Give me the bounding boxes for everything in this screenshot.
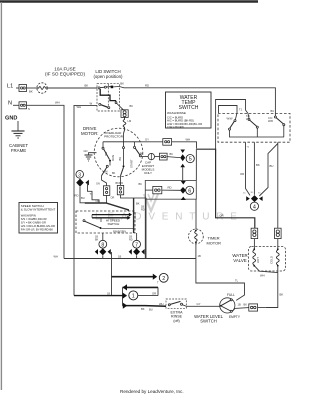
wire connector1 right stub	[138, 295, 158, 297]
motor left winding arm	[102, 142, 112, 176]
junction marks below connector 8	[95, 248, 111, 255]
fuse F1 (10A, dashed = if so equipped)	[37, 83, 47, 93]
wire thick to connector 2	[112, 276, 154, 278]
label GN/OR at left connector	[96, 183, 114, 200]
svg-text:SWITCH: SWITCH	[200, 319, 217, 324]
wire timer to rail and water level	[196, 244, 245, 301]
water level switch circle	[220, 298, 235, 313]
svg-text:1: 1	[132, 293, 135, 299]
label START (rotated)	[129, 159, 133, 168]
labels RD BU at staircase	[75, 194, 85, 201]
svg-text:W: W	[90, 102, 93, 106]
label BU on drop	[270, 164, 274, 168]
stub pin labels at connector 4	[243, 192, 262, 194]
temp contact 3 (C/C W/R)	[274, 116, 284, 137]
svg-text:OR: OR	[240, 172, 244, 176]
svg-text:R/WB/SPIN: R/WB/SPIN	[113, 230, 126, 233]
temp contact 1 (W/W)	[229, 114, 285, 138]
lid switch lower contacts	[99, 101, 124, 110]
label WATER VALVE	[232, 253, 247, 263]
connector 6 (circled)	[186, 186, 194, 194]
svg-text:BK: BK	[140, 151, 144, 155]
label WH at rail start	[54, 255, 58, 259]
water temp switch contacts dashed box	[218, 113, 290, 142]
svg-text:7: 7	[135, 242, 138, 248]
svg-text:(IF SO EQUIPPED): (IF SO EQUIPPED)	[45, 71, 86, 76]
label C/C W/R	[268, 116, 273, 123]
timer motor dashed circle	[189, 229, 204, 244]
drive motor M1 dashed circle	[94, 128, 143, 177]
label TL on water level feed	[235, 279, 239, 283]
node L1 label	[7, 84, 13, 90]
label 1B on rail	[118, 254, 121, 258]
svg-text:BK: BK	[170, 152, 174, 156]
label GN at ground stub	[84, 149, 88, 153]
speed switch legend text	[21, 204, 56, 231]
svg-text:1C: 1C	[243, 193, 246, 195]
svg-text:BU: BU	[104, 152, 108, 156]
label RUN (rotated)	[111, 155, 115, 161]
label FULL	[227, 293, 235, 297]
svg-text:BK: BK	[29, 90, 33, 94]
svg-text:Rendered by LeadVenture, Inc.: Rendered by LeadVenture, Inc.	[120, 389, 184, 394]
svg-text:BU: BU	[270, 164, 274, 168]
svg-text:BK: BK	[120, 82, 124, 86]
wire temp drop BK	[253, 142, 255, 195]
svg-text:2: 2	[162, 276, 165, 282]
svg-text:WASH/SPIN: WASH/SPIN	[21, 213, 36, 217]
svg-text:WH: WH	[186, 137, 191, 141]
wire thick BK drop to connector7	[133, 198, 135, 233]
wire drop to circuits 1 and 2	[111, 252, 113, 296]
svg-text:START: START	[129, 159, 133, 168]
label HI SPEED SWITCH	[106, 218, 121, 226]
connector 5 (circled)	[186, 155, 194, 163]
speed switch dashed box	[76, 211, 135, 233]
svg-text:3: 3	[78, 172, 81, 178]
svg-text:FULL: FULL	[227, 293, 235, 297]
wire connector7 to rail	[136, 255, 138, 258]
label OR above	[96, 199, 100, 203]
label BK before lid switch	[85, 84, 89, 88]
svg-text:1D: 1D	[250, 192, 253, 194]
valve connector (cold)	[275, 228, 282, 238]
junction marks at connector 6	[180, 181, 186, 200]
overload protector squiggle	[123, 117, 126, 133]
motor output connector left	[102, 176, 110, 203]
label CABINET FRAME	[9, 143, 28, 153]
water valve dashed box	[249, 247, 286, 272]
water temp switch legend text	[167, 95, 202, 129]
wire N lead	[13, 104, 19, 106]
wire extra rinse to water level	[186, 305, 219, 307]
svg-text:SWITCH: SWITCH	[108, 222, 120, 226]
wire diamond3 staircase right	[88, 183, 100, 203]
label BK at junction box left	[139, 182, 143, 186]
svg-text:HOT: HOT	[256, 257, 260, 263]
svg-text:ONLY: ONLY	[144, 171, 152, 175]
label N under connector	[28, 107, 30, 111]
footer text	[120, 389, 184, 394]
svg-text:5: 5	[189, 157, 192, 163]
wire lid switch to temp contacts (top run)	[119, 87, 275, 117]
svg-text:BK: BK	[85, 84, 89, 88]
label T/C W/L	[246, 114, 251, 121]
junction triangle at connector 1	[123, 293, 127, 299]
label EXTRA RINSE (off)	[171, 310, 184, 322]
label BK at cap branch	[140, 151, 144, 155]
timer motor coil	[195, 230, 198, 244]
label WH left of lid switch	[77, 105, 82, 109]
svg-text:BK: BK	[95, 239, 99, 242]
svg-text:1B: 1B	[238, 303, 241, 307]
connector 4 (circled)	[250, 202, 258, 210]
svg-text:GN: GN	[96, 183, 100, 186]
svg-text:1B: 1B	[198, 254, 201, 258]
svg-text:BK: BK	[280, 293, 284, 297]
svg-text:BU: BU	[81, 196, 85, 200]
svg-text:RUN: RUN	[111, 155, 115, 161]
label BK near connector	[130, 104, 134, 108]
svg-text:1B: 1B	[118, 254, 121, 258]
junction triangle left of upper branch	[123, 284, 127, 290]
wire nested link B	[219, 106, 238, 114]
wire connector6 to timer	[195, 199, 197, 229]
label T1 near contacts entry	[239, 108, 243, 112]
label LID SWITCH (open position)	[93, 69, 123, 79]
speed switch internal bus wires	[92, 215, 129, 218]
capacitor connector box	[155, 153, 181, 160]
svg-text:BK: BK	[244, 303, 248, 307]
valve coil HOT	[253, 248, 256, 266]
label T1 at staircase	[90, 192, 94, 196]
extra rinse switch dashed box	[166, 299, 186, 308]
connector box RD (to circle 6)	[145, 186, 180, 193]
wire fuse to lid switch	[47, 87, 97, 89]
lid switch S1 dashed box	[97, 84, 119, 111]
label 1B near connector 8	[95, 236, 99, 242]
svg-text:LM: LM	[128, 119, 132, 123]
motor centre arm	[121, 142, 125, 176]
connector on WH run	[163, 139, 172, 146]
svg-text:GY: GY	[145, 137, 149, 141]
node N label	[8, 101, 12, 107]
svg-text:N: N	[8, 101, 12, 107]
svg-text:5M: 5M	[104, 171, 107, 174]
wire connector to circle5 drop	[172, 142, 197, 149]
lid switch internal jumper	[100, 89, 116, 101]
wire connectors to valve coils	[254, 239, 277, 249]
junction marks below connector 7	[129, 248, 145, 255]
bus wire end arrows	[127, 213, 132, 220]
wire thick bottom to extra rinse	[123, 305, 167, 308]
labels BK BU on bottom wire	[141, 307, 153, 312]
label RD on top run	[145, 83, 149, 87]
label CAP EXPORT MODELS ONLY	[142, 160, 155, 175]
wire GND drop	[17, 121, 19, 131]
ground symbol at motor	[85, 155, 93, 161]
svg-text:WH: WH	[159, 302, 164, 306]
wire circle5 down to circle6	[182, 167, 184, 181]
connector 1 (circled)	[129, 291, 138, 300]
speed switch contacts	[83, 215, 133, 229]
wire temp drop BU	[259, 144, 278, 197]
svg-text:BK/RD: BK/RD	[116, 182, 124, 185]
svg-text:S/Y = BK-GN/BK-GR: S/Y = BK-GN/BK-GR	[21, 221, 46, 225]
wire neutral rail (bottom horizontal)	[64, 258, 196, 260]
label WH under valve	[260, 274, 265, 278]
svg-text:RD: RD	[168, 185, 172, 189]
motor output connector right	[117, 176, 146, 198]
svg-text:4: 4	[253, 204, 256, 210]
label DRIVE MOTOR	[81, 126, 98, 136]
svg-text:VALVE: VALVE	[233, 258, 247, 263]
wire corner into extra rinse	[157, 287, 159, 295]
label TIMER MOTOR	[207, 236, 222, 246]
svg-text:BK: BK	[118, 157, 122, 161]
lid switch top contacts	[98, 86, 119, 89]
capacitor connector circle	[141, 153, 154, 159]
label BU at top right drop	[271, 109, 275, 113]
svg-text:(off): (off)	[173, 319, 179, 323]
svg-text:L1: L1	[7, 84, 13, 90]
label GY before connector	[145, 137, 149, 141]
wire diamond3 staircase left	[80, 187, 85, 204]
label WH on run	[186, 137, 191, 141]
svg-text:RD: RD	[129, 239, 133, 242]
label BU (rotated, motor)	[104, 152, 108, 156]
wire temp contacts to cold valve connector	[277, 142, 279, 228]
wire connector8 to rail	[102, 255, 104, 258]
connector 2 (circled)	[159, 273, 168, 282]
wire valve bottoms merge	[254, 266, 277, 273]
ground (cabinet frame)	[12, 131, 25, 138]
svg-text:BK: BK	[136, 202, 140, 206]
svg-text:GN: GN	[84, 149, 88, 153]
svg-text:OR: OR	[220, 213, 224, 217]
svg-text:P/H GR-LR, BY-RD/RD-BK: P/H GR-LR, BY-RD/RD-BK	[21, 227, 54, 231]
svg-text:W/W: W/W	[227, 116, 233, 120]
svg-text:BU: BU	[149, 308, 153, 312]
label 1B near connector 7	[129, 236, 133, 242]
wire temp drop OR	[246, 142, 251, 195]
svg-text:& SLOW INTERMITTENT: & SLOW INTERMITTENT	[21, 207, 56, 211]
svg-text:N: N	[28, 107, 30, 111]
junction triangle on bottom wire	[123, 303, 128, 309]
svg-text:8: 8	[101, 242, 104, 248]
wire N to left rail	[27, 105, 65, 258]
svg-text:EMPTY: EMPTY	[229, 315, 241, 319]
svg-text:GND: GND	[5, 116, 17, 122]
wire valve down right side	[266, 273, 278, 308]
label R/WB/SPIN	[113, 230, 126, 233]
valve connector (hot)	[251, 228, 258, 238]
wire rect left edge down to rail	[144, 199, 146, 258]
junction diamond below connector 3	[76, 179, 89, 187]
svg-text:FRAME: FRAME	[11, 148, 26, 153]
svg-text:OR: OR	[152, 291, 156, 295]
label W/W	[227, 116, 233, 120]
speed switch legend box	[19, 203, 58, 234]
connector P2 on N	[19, 102, 27, 109]
label BK on drop	[256, 163, 260, 167]
label OR on thick path	[220, 213, 224, 217]
pin label T2 below contacts box	[247, 147, 250, 149]
wire x122 drop	[122, 287, 124, 305]
temp contact 2 (T/C W/L)	[248, 119, 258, 138]
water level switch arms	[220, 299, 235, 313]
svg-text:WH: WH	[77, 105, 82, 109]
motor internal chord wire	[103, 134, 140, 142]
connector 7 (circled)	[133, 240, 141, 248]
label EMPTY	[229, 315, 241, 319]
svg-text:W/L: W/L	[246, 117, 251, 121]
watermark LEADVENTURE text	[95, 211, 244, 222]
svg-text:WH: WH	[55, 100, 60, 104]
label 1B BK at water level right	[238, 303, 248, 307]
water temp switch legend box	[166, 92, 212, 128]
label WH on N wire	[55, 100, 60, 104]
svg-text:BK: BK	[130, 104, 134, 108]
svg-text:H/S =OR-LR,BH/RD-GN-OR: H/S =OR-LR,BH/RD-GN-OR	[21, 224, 55, 228]
svg-text:MOTOR:: MOTOR:	[81, 131, 98, 136]
connector at water level right	[249, 304, 266, 311]
svg-text:S/S = WH/BK,RD-OR: S/S = WH/BK,RD-OR	[21, 217, 47, 221]
label BK at drop	[136, 202, 140, 206]
svg-text:RD: RD	[141, 209, 145, 212]
label 1 tick under connector 2	[157, 282, 159, 285]
junction box (white rect around connector 6)	[145, 180, 196, 199]
wire L1 to fuse	[27, 87, 37, 89]
svg-text:PROTECTOR: PROTECTOR	[104, 135, 124, 139]
label BK/RD at right connector	[116, 182, 124, 185]
label OVERLOAD PROTECTOR	[104, 131, 124, 139]
wire L1 lead	[16, 87, 19, 89]
svg-text:W/R: W/R	[268, 119, 273, 123]
svg-text:WH: WH	[260, 274, 265, 278]
connector 8 (circled)	[99, 240, 107, 248]
junction marks at connector 5	[180, 150, 185, 168]
svg-text:C/W = BU/RD: C/W = BU/RD	[167, 125, 184, 129]
label WH at lid exit	[90, 102, 93, 106]
label BK (rotated, motor)	[118, 157, 122, 161]
svg-text:OR: OR	[111, 197, 115, 200]
junction diamond above connector 4	[246, 195, 262, 202]
wire water level to connector	[235, 307, 249, 310]
svg-text:MOTOR: MOTOR	[207, 240, 222, 245]
wire thick OR path (junction to hot valve)	[197, 149, 255, 228]
wire nested link A (legend to contacts)	[216, 100, 248, 155]
label WATER LEVEL SWITCH	[194, 314, 224, 324]
extra rinse contacts	[168, 301, 186, 306]
svg-text:GY: GY	[197, 302, 201, 306]
connector below lid switch	[121, 110, 128, 118]
svg-text:BK: BK	[139, 182, 143, 186]
wire thick OR into speed box	[85, 203, 129, 211]
wire x146 drop to rail	[145, 198, 147, 259]
label BK on right drop	[280, 293, 284, 297]
label GY	[197, 302, 201, 306]
label HOT (rotated)	[256, 257, 260, 263]
motor GN ground stub	[89, 153, 97, 155]
wire speed box to connector 7	[136, 233, 138, 240]
wire vertical to junction box	[195, 149, 197, 180]
connector P1 on L1	[19, 85, 27, 92]
wire thick to connector 1	[74, 295, 127, 297]
junction triangle at connector 2	[153, 274, 157, 280]
label 5M BK inside motor	[104, 171, 116, 176]
svg-text:COLD: COLD	[270, 256, 274, 264]
label WH before extra rinse	[159, 302, 164, 306]
label BK at lid switch right	[120, 82, 124, 86]
label OR at corner	[152, 291, 156, 295]
label LM	[128, 119, 132, 123]
label 1B RD right of speed box	[141, 206, 145, 212]
wire chord out to connector (WH run)	[140, 141, 163, 143]
label RD above box	[168, 185, 172, 189]
label 1B on drop	[107, 293, 110, 296]
svg-text:RD: RD	[75, 194, 79, 198]
svg-text:BK: BK	[112, 172, 116, 175]
svg-text:6: 6	[188, 188, 191, 194]
label 10A FUSE (IF SO EQUIPPED)	[45, 67, 86, 77]
wire speed box to connector 8	[102, 233, 104, 240]
connector 3 (circled)	[76, 171, 84, 179]
label 1B at timer bottom	[198, 254, 201, 258]
svg-text:(open position): (open position)	[93, 74, 123, 79]
svg-text:BU: BU	[271, 109, 275, 113]
label BK after cap box	[170, 152, 174, 156]
wire thick upper branch at connector 1	[123, 286, 159, 288]
svg-text:BK: BK	[141, 307, 145, 311]
label BK on L1	[29, 90, 33, 94]
svg-text:BK: BK	[256, 163, 260, 167]
node GND label	[5, 116, 17, 122]
wire lid switch to left (WH)	[74, 105, 97, 295]
svg-text:WASH/RINSE: WASH/RINSE	[167, 111, 186, 115]
watermark V logo	[144, 194, 158, 211]
svg-text:RD: RD	[145, 83, 149, 87]
label OR on drop	[240, 172, 244, 176]
valve coil COLD	[276, 248, 279, 266]
motor right arm to cap	[134, 142, 142, 157]
svg-text:OR: OR	[96, 199, 100, 203]
svg-text:WH: WH	[54, 255, 58, 259]
label COLD (rotated)	[270, 256, 274, 264]
